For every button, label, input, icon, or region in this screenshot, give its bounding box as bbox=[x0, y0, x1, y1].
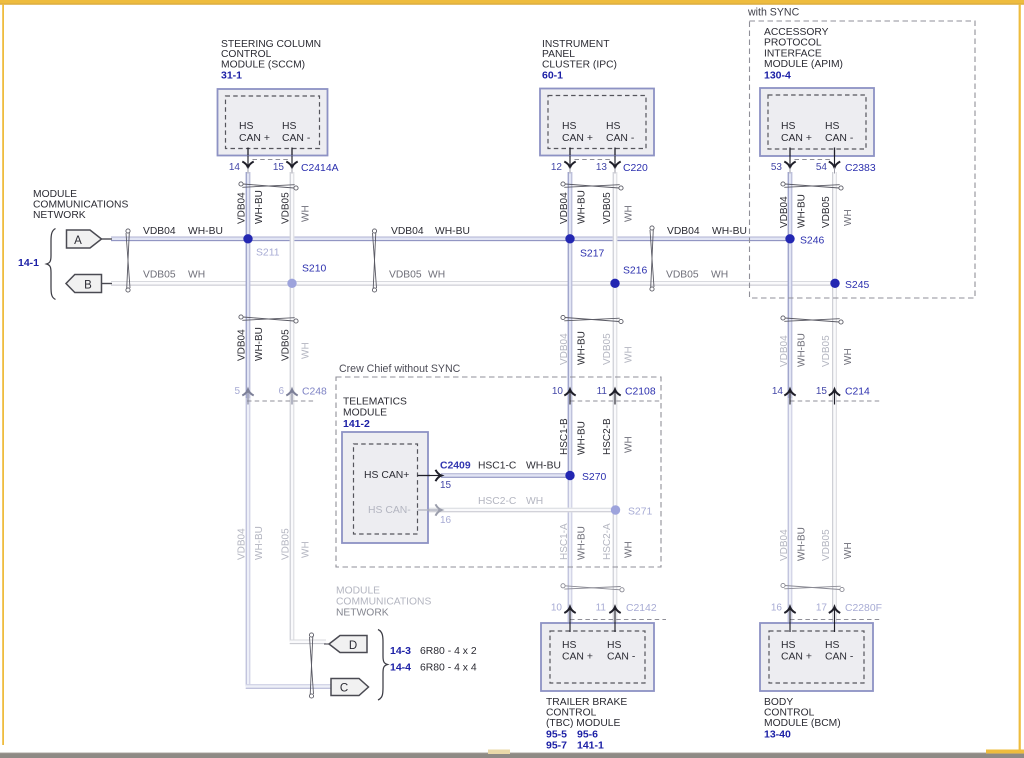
svg-text:WH: WH bbox=[624, 346, 635, 363]
module IPC box bbox=[540, 89, 654, 156]
module BCM box bbox=[760, 623, 873, 691]
region box: with SYNC bbox=[750, 21, 976, 298]
svg-text:54: 54 bbox=[816, 162, 828, 173]
svg-text:60-1: 60-1 bbox=[542, 70, 563, 82]
svg-text:95-7: 95-7 bbox=[546, 740, 567, 752]
wire APIM VDB05 vertical bbox=[832, 172, 837, 623]
region box: Crew Chief without SYNC bbox=[336, 377, 661, 567]
svg-text:5: 5 bbox=[234, 386, 240, 397]
connector C2280F pins 16 17 (ghost text) bbox=[790, 619, 881, 621]
svg-text:WH: WH bbox=[624, 541, 635, 558]
svg-text:WH: WH bbox=[526, 496, 543, 507]
svg-text:VDB04: VDB04 bbox=[779, 196, 790, 228]
svg-text:WH-BU: WH-BU bbox=[254, 190, 265, 224]
svg-text:HS: HS bbox=[781, 640, 796, 651]
svg-text:13: 13 bbox=[596, 162, 608, 173]
svg-text:CAN -: CAN - bbox=[606, 133, 634, 144]
svg-text:WH: WH bbox=[624, 205, 635, 222]
twisted pair symbol APIM above bus bbox=[781, 182, 785, 186]
module SCCM box bbox=[218, 89, 328, 156]
svg-text:HS: HS bbox=[825, 121, 840, 132]
svg-text:WH: WH bbox=[843, 542, 854, 559]
svg-text:14-4: 14-4 bbox=[390, 662, 411, 674]
svg-text:11: 11 bbox=[596, 603, 607, 614]
svg-text:C: C bbox=[340, 682, 348, 694]
svg-text:WH-BU: WH-BU bbox=[712, 226, 747, 237]
svg-text:S216: S216 bbox=[623, 266, 647, 277]
svg-text:MODULE: MODULE bbox=[336, 586, 380, 597]
connector C2383 pins 53 54 bbox=[795, 159, 832, 161]
svg-text:WH-BU: WH-BU bbox=[797, 333, 808, 367]
module APIM box bbox=[760, 88, 874, 156]
svg-text:14: 14 bbox=[229, 162, 241, 173]
svg-text:MODULE: MODULE bbox=[33, 189, 77, 200]
svg-text:VDB05: VDB05 bbox=[821, 196, 832, 228]
svg-text:VDB05: VDB05 bbox=[666, 270, 699, 281]
svg-text:HS: HS bbox=[781, 121, 796, 132]
svg-text:NETWORK: NETWORK bbox=[336, 608, 389, 619]
svg-text:CAN -: CAN - bbox=[825, 652, 853, 663]
svg-text:11: 11 bbox=[597, 386, 608, 397]
svg-text:WH-BU: WH-BU bbox=[797, 194, 808, 228]
svg-text:BODY: BODY bbox=[764, 697, 793, 708]
svg-text:15: 15 bbox=[816, 386, 828, 397]
connector C2414A pins 14 15 bbox=[253, 159, 289, 161]
svg-text:C2280F: C2280F bbox=[845, 603, 882, 614]
svg-text:VDB04: VDB04 bbox=[779, 529, 790, 561]
svg-text:INTERFACE: INTERFACE bbox=[764, 48, 822, 59]
svg-text:13-40: 13-40 bbox=[764, 729, 791, 741]
svg-text:WH-BU: WH-BU bbox=[577, 331, 588, 365]
svg-text:VDB05: VDB05 bbox=[602, 192, 613, 224]
page border frame top bbox=[0, 0, 1024, 3]
connector C220 pins 12 13 bbox=[575, 159, 612, 161]
svg-text:S245: S245 bbox=[845, 280, 869, 291]
svg-text:HS: HS bbox=[606, 121, 621, 132]
svg-text:WH-BU: WH-BU bbox=[254, 526, 265, 560]
connector B bbox=[102, 283, 113, 285]
wire telematics HSC1-C WH-BU bbox=[441, 473, 570, 478]
svg-text:WH-BU: WH-BU bbox=[188, 226, 223, 237]
wire APIM VDB04 vertical bbox=[788, 172, 793, 398]
svg-text:C2383: C2383 bbox=[845, 163, 876, 174]
twisted pair symbol bus right bbox=[650, 226, 654, 230]
svg-text:VDB04: VDB04 bbox=[667, 226, 700, 237]
svg-text:MODULE (BCM): MODULE (BCM) bbox=[764, 718, 841, 729]
twisted pair symbol above BCM bbox=[781, 583, 785, 587]
svg-text:HSC1-B: HSC1-B bbox=[559, 418, 570, 455]
svg-text:C214: C214 bbox=[845, 387, 870, 398]
svg-text:15: 15 bbox=[273, 162, 285, 173]
svg-text:HSC1-A: HSC1-A bbox=[559, 523, 570, 560]
connector C bbox=[331, 679, 369, 696]
svg-text:6R80 - 4 x 4: 6R80 - 4 x 4 bbox=[420, 663, 477, 674]
splice S217 bbox=[565, 234, 574, 243]
svg-text:with SYNC: with SYNC bbox=[747, 7, 800, 19]
svg-text:WH: WH bbox=[843, 209, 854, 226]
page border frame right bbox=[1019, 4, 1021, 750]
svg-text:CAN -: CAN - bbox=[825, 133, 853, 144]
connector C214 pins 14 15 bbox=[790, 400, 881, 402]
svg-text:VDB04: VDB04 bbox=[559, 333, 570, 365]
splice S245 bbox=[830, 279, 839, 288]
splice S271 (ghost) bbox=[611, 505, 620, 514]
svg-text:HSC2-C: HSC2-C bbox=[478, 496, 517, 507]
module Telematics box bbox=[342, 432, 428, 543]
wire SCCM VDB05 vertical (pin 15 down to node D) bbox=[290, 172, 295, 642]
svg-text:CAN +: CAN + bbox=[562, 133, 593, 144]
twisted pair symbol bus left bbox=[126, 229, 130, 233]
svg-text:31-1: 31-1 bbox=[221, 70, 242, 82]
svg-text:C248: C248 bbox=[302, 387, 327, 398]
svg-text:HS: HS bbox=[607, 640, 622, 651]
svg-text:CONTROL: CONTROL bbox=[546, 708, 597, 719]
twisted pair symbol IPC above bus bbox=[561, 182, 565, 186]
twisted pair symbol APIM below region bbox=[781, 316, 785, 320]
svg-text:141-1: 141-1 bbox=[577, 740, 604, 752]
svg-text:WH-BU: WH-BU bbox=[577, 421, 588, 455]
svg-text:VDB05: VDB05 bbox=[281, 192, 292, 224]
svg-text:6: 6 bbox=[278, 386, 284, 397]
svg-text:VDB05: VDB05 bbox=[281, 329, 292, 361]
wire IPC VDB04/HSC1 vertical bbox=[568, 172, 573, 475]
svg-text:COMMUNICATIONS: COMMUNICATIONS bbox=[336, 597, 431, 608]
svg-text:14-1: 14-1 bbox=[18, 257, 39, 269]
svg-text:WH: WH bbox=[188, 270, 205, 281]
svg-text:TRAILER BRAKE: TRAILER BRAKE bbox=[546, 697, 627, 708]
svg-text:C2108: C2108 bbox=[625, 387, 656, 398]
svg-text:(TBC) MODULE: (TBC) MODULE bbox=[546, 718, 620, 729]
svg-text:HSC2-B: HSC2-B bbox=[602, 418, 613, 455]
twisted pair symbol at D/C bbox=[309, 633, 313, 637]
svg-text:WH: WH bbox=[301, 541, 312, 558]
svg-text:WH-BU: WH-BU bbox=[577, 526, 588, 560]
splice S210 (ghost) bbox=[287, 279, 296, 288]
svg-text:S210: S210 bbox=[302, 264, 326, 275]
svg-text:TELEMATICS: TELEMATICS bbox=[343, 397, 407, 408]
svg-text:WH: WH bbox=[301, 205, 312, 222]
splice S216 bbox=[610, 279, 619, 288]
wire bus VDB05 WH (B line) bbox=[111, 281, 835, 286]
connector C2142 pins 10 11 (ghost text) bbox=[570, 619, 666, 621]
svg-text:S271: S271 bbox=[628, 507, 652, 518]
svg-text:HS: HS bbox=[562, 121, 577, 132]
svg-text:COMMUNICATIONS: COMMUNICATIONS bbox=[33, 200, 128, 211]
svg-text:HS CAN-: HS CAN- bbox=[368, 505, 411, 516]
svg-text:16: 16 bbox=[440, 515, 452, 526]
svg-text:VDB05: VDB05 bbox=[821, 529, 832, 561]
svg-text:VDB05: VDB05 bbox=[389, 270, 422, 281]
svg-text:HS: HS bbox=[562, 640, 577, 651]
svg-text:16: 16 bbox=[771, 603, 783, 614]
svg-text:6R80 - 4 x 2: 6R80 - 4 x 2 bbox=[420, 646, 477, 657]
splice S211 bbox=[243, 234, 252, 243]
svg-text:C2414A: C2414A bbox=[301, 163, 339, 174]
svg-text:VDB05: VDB05 bbox=[281, 528, 292, 560]
svg-text:C2409: C2409 bbox=[440, 461, 471, 472]
page border frame left bbox=[2, 4, 4, 745]
connector C2409 pin 16 (ghost) bbox=[436, 504, 442, 515]
wire bus VDB04 WH-BU (A line) bbox=[111, 237, 790, 242]
svg-text:MODULE (APIM): MODULE (APIM) bbox=[764, 59, 843, 70]
connector C248 pins 5 6 (ghost) bbox=[247, 400, 315, 402]
svg-text:NETWORK: NETWORK bbox=[33, 210, 86, 221]
svg-text:WH-BU: WH-BU bbox=[526, 461, 561, 472]
twisted pair symbol above TBC bbox=[561, 584, 565, 588]
svg-text:VDB04: VDB04 bbox=[237, 192, 248, 224]
svg-text:10: 10 bbox=[552, 386, 564, 397]
svg-text:53: 53 bbox=[771, 162, 783, 173]
svg-text:130-4: 130-4 bbox=[764, 70, 791, 82]
connector C2409 pin 15 bbox=[436, 470, 442, 481]
wire IPC VDB05/HSC2 vertical bbox=[613, 172, 618, 623]
twisted pair symbol bus mid bbox=[372, 229, 376, 233]
svg-text:VDB04: VDB04 bbox=[143, 226, 176, 237]
svg-text:S246: S246 bbox=[800, 236, 824, 247]
svg-text:15: 15 bbox=[440, 480, 452, 491]
wire to connector C horizontal bbox=[246, 684, 331, 689]
connector C2108 pins 10 11 bbox=[570, 400, 661, 402]
twisted pair symbol SCCM above bus bbox=[239, 182, 243, 186]
svg-text:HS CAN+: HS CAN+ bbox=[364, 470, 409, 481]
svg-text:PROTOCOL: PROTOCOL bbox=[764, 38, 822, 49]
svg-text:MODULE: MODULE bbox=[343, 408, 387, 419]
svg-text:WH-BU: WH-BU bbox=[577, 190, 588, 224]
module TBC box bbox=[541, 623, 654, 691]
svg-text:Crew Chief without SYNC: Crew Chief without SYNC bbox=[339, 363, 461, 375]
wire telematics HSC2-C WH (ghost) bbox=[429, 508, 616, 513]
svg-text:S217: S217 bbox=[580, 249, 604, 260]
svg-text:CAN +: CAN + bbox=[239, 133, 270, 144]
svg-text:WH: WH bbox=[428, 270, 445, 281]
brace for A/B bbox=[47, 229, 56, 300]
wire to connector D horizontal bbox=[290, 640, 326, 645]
svg-text:B: B bbox=[84, 279, 92, 291]
svg-text:S211: S211 bbox=[256, 248, 280, 259]
connector D bbox=[329, 636, 367, 653]
svg-text:HSC1-C: HSC1-C bbox=[478, 461, 517, 472]
svg-text:10: 10 bbox=[551, 603, 563, 614]
svg-text:14-3: 14-3 bbox=[390, 645, 411, 657]
svg-text:CAN +: CAN + bbox=[781, 133, 812, 144]
brace for D/C bbox=[378, 630, 388, 701]
connector A bbox=[102, 238, 113, 240]
splice S246 bbox=[785, 234, 794, 243]
svg-text:CAN +: CAN + bbox=[562, 652, 593, 663]
svg-text:HSC2-A: HSC2-A bbox=[602, 523, 613, 560]
svg-text:VDB04: VDB04 bbox=[391, 226, 424, 237]
svg-text:A: A bbox=[74, 235, 82, 247]
svg-text:HS: HS bbox=[825, 640, 840, 651]
twisted pair symbol SCCM below bus bbox=[239, 315, 243, 319]
splice S270 bbox=[565, 471, 574, 480]
svg-text:VDB05: VDB05 bbox=[602, 333, 613, 365]
svg-text:WH-BU: WH-BU bbox=[254, 327, 265, 361]
twisted pair symbol IPC below bus bbox=[561, 315, 565, 319]
svg-text:12: 12 bbox=[551, 162, 563, 173]
svg-text:VDB04: VDB04 bbox=[237, 528, 248, 560]
svg-text:ACCESSORY: ACCESSORY bbox=[764, 27, 829, 38]
wire SCCM VDB04 vertical (pin 14 down to node C) bbox=[246, 172, 251, 398]
svg-text:S270: S270 bbox=[582, 472, 606, 483]
svg-text:D: D bbox=[349, 640, 357, 652]
svg-text:CONTROL: CONTROL bbox=[764, 708, 815, 719]
svg-text:VDB04: VDB04 bbox=[559, 192, 570, 224]
svg-text:VDB05: VDB05 bbox=[143, 270, 176, 281]
svg-text:WH: WH bbox=[301, 342, 312, 359]
svg-text:VDB04: VDB04 bbox=[779, 335, 790, 367]
svg-text:WH: WH bbox=[711, 270, 728, 281]
svg-text:VDB05: VDB05 bbox=[821, 335, 832, 367]
page border frame bottom bbox=[0, 753, 1024, 754]
svg-text:WH: WH bbox=[624, 436, 635, 453]
svg-text:CAN +: CAN + bbox=[781, 652, 812, 663]
svg-text:C220: C220 bbox=[623, 163, 648, 174]
svg-text:WH-BU: WH-BU bbox=[435, 226, 470, 237]
svg-text:CAN -: CAN - bbox=[282, 133, 310, 144]
svg-text:14: 14 bbox=[772, 386, 784, 397]
svg-text:WH: WH bbox=[843, 348, 854, 365]
svg-text:HS: HS bbox=[282, 121, 297, 132]
svg-text:HS: HS bbox=[239, 121, 254, 132]
svg-text:CAN -: CAN - bbox=[607, 652, 635, 663]
svg-text:17: 17 bbox=[816, 603, 828, 614]
svg-text:WH-BU: WH-BU bbox=[797, 527, 808, 561]
svg-text:VDB04: VDB04 bbox=[237, 329, 248, 361]
svg-text:C2142: C2142 bbox=[626, 603, 657, 614]
svg-text:141-2: 141-2 bbox=[343, 418, 370, 430]
